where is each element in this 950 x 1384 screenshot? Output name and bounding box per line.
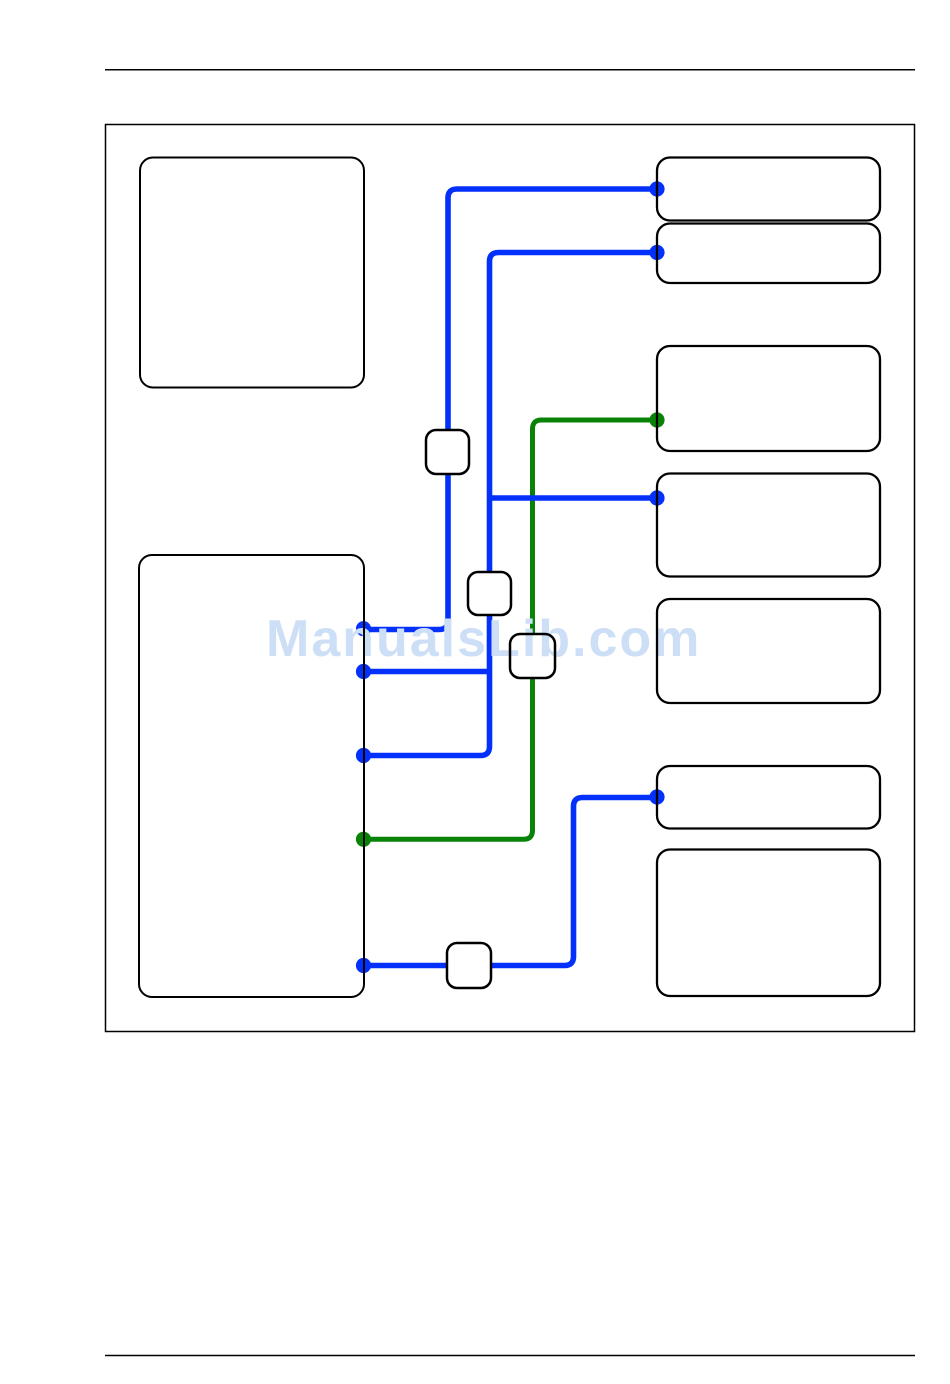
svg-text:ManualsLib.com: ManualsLib.com <box>266 610 701 668</box>
